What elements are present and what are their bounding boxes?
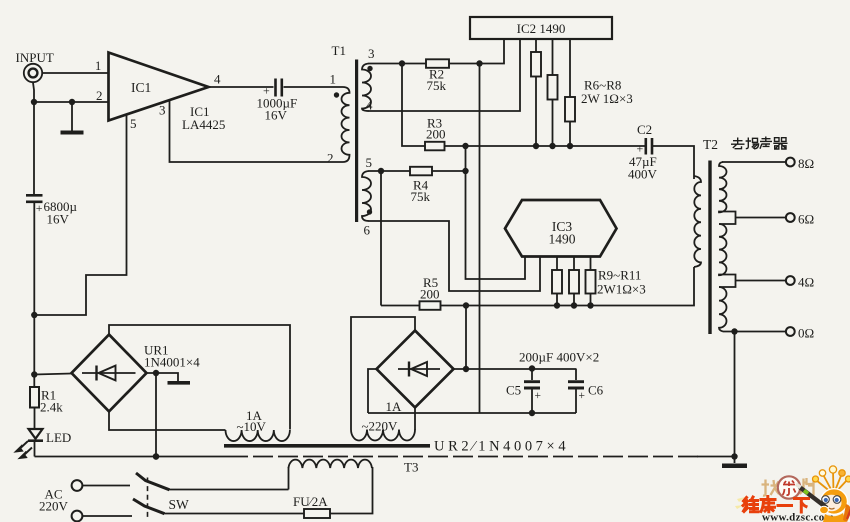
- wire: IC3 pin to R10: [573, 257, 575, 271]
- terminal 8 ohm: [786, 158, 795, 167]
- wire: T1 pin5 to R4: [369, 170, 411, 172]
- node: R9 bottom on bus: [554, 302, 560, 308]
- node: earth junction on bus: [731, 453, 737, 459]
- resistor R8 body: [565, 97, 575, 122]
- svg-text:1N4001×4: 1N4001×4: [144, 355, 200, 370]
- svg-text:75k: 75k: [427, 78, 447, 93]
- wire: T2 primary bottom to bus y305: [466, 267, 694, 306]
- wire: T1 pin4 to IC2 pin: [369, 39, 521, 111]
- node: pin5 joins left rail: [31, 312, 37, 318]
- svg-text:200µF 400V×2: 200µF 400V×2: [519, 350, 599, 365]
- terminal 0 ohm: [786, 327, 795, 336]
- node: C5 top: [529, 365, 535, 371]
- wire: R7 to bus y146: [552, 100, 554, 147]
- wire: R1 to LED: [34, 408, 36, 430]
- svg-text:C6: C6: [588, 383, 604, 398]
- node: T1 pin5 to R4 R5 branch: [378, 168, 384, 174]
- wire: jack sleeve to rail: [33, 83, 34, 103]
- resistor R2 body: [426, 59, 449, 68]
- svg-text:16V: 16V: [265, 108, 288, 123]
- wire: IC3 pin to R11: [590, 257, 592, 271]
- wire: C2 to T2 primary top: [653, 146, 694, 179]
- capacitor 1000uF plates: [276, 79, 282, 97]
- bridge rectifier UR2 diamond: [377, 331, 454, 408]
- wire: T1 pin3 to R2: [369, 63, 427, 65]
- fuse FU 2A body: [304, 509, 330, 518]
- bridge rectifier UR1 diamond: [72, 335, 147, 412]
- transformer T3 primary winding: [289, 460, 372, 468]
- svg-text:200: 200: [426, 127, 446, 142]
- wire: SW top pole to T3 primary left: [170, 489, 289, 491]
- input jack J1: [24, 64, 42, 82]
- wire: input jack pin1 to IC1: [43, 72, 109, 74]
- svg-text:R9~R11: R9~R11: [598, 268, 641, 283]
- wire: left rail to UR1 left vertex: [34, 374, 71, 375]
- wire: R3 to supply bus y146: [445, 145, 646, 147]
- terminal 6 ohm: [786, 213, 795, 222]
- transformer T3 core bar: [224, 444, 430, 448]
- wire: R10 to bus y305: [573, 294, 575, 306]
- wire: supply node down to IC3 pin a: [466, 146, 526, 279]
- wire: R5 left lead: [381, 305, 420, 307]
- wire: LED to bottom bus: [34, 442, 36, 457]
- svg-text:~220V: ~220V: [362, 419, 399, 434]
- resistor R5 body: [420, 301, 441, 310]
- wire: input ground rail to IC1 pin2: [34, 101, 109, 103]
- watermark pale streaks: [735, 497, 745, 509]
- terminal AC top: [72, 480, 83, 491]
- node: pin2 ground junction: [69, 99, 75, 105]
- node: T1 pin3 to R3 branch: [399, 60, 405, 66]
- UR1 internal diode: [82, 372, 136, 374]
- wire: IC1 pin2 ground stub: [71, 102, 73, 131]
- svg-text:LED: LED: [46, 430, 71, 445]
- svg-text:2.4k: 2.4k: [40, 400, 63, 415]
- svg-text:+: +: [535, 390, 542, 402]
- wire: 0ohm tap down to earth: [734, 332, 736, 464]
- terminal 4 ohm: [786, 276, 795, 285]
- transformer T1 primary winding (pins 1-2): [342, 87, 350, 162]
- resistor R9 body: [552, 270, 562, 294]
- node: UR1 positive output: [153, 370, 159, 376]
- svg-text:5: 5: [130, 116, 137, 131]
- node: UR2 positive junction: [463, 366, 469, 372]
- node: R2 output branch: [476, 60, 482, 66]
- polarity dot T1 pin1: [334, 92, 339, 97]
- svg-text:+: +: [36, 201, 43, 215]
- svg-text:FU∕2A: FU∕2A: [293, 494, 328, 509]
- wire: AC top terminal lead: [82, 485, 130, 487]
- svg-text:T2: T2: [703, 137, 718, 152]
- svg-text:T3: T3: [404, 460, 418, 475]
- watermark text zhao-xin-pian (tan): [762, 478, 814, 496]
- wire: left rail 6800u to R1: [33, 203, 35, 387]
- resistor R11 body: [586, 270, 596, 294]
- wire: IC2 pin to R6: [535, 39, 537, 52]
- LED D1 symbol: [29, 429, 43, 439]
- terminal AC bottom: [72, 511, 83, 522]
- watermark text weiku-yixia (red): [743, 497, 809, 513]
- wire: IC2 pin to R7: [552, 39, 554, 75]
- svg-text:1490: 1490: [549, 232, 576, 247]
- resistor R1 body: [30, 387, 39, 408]
- svg-text:SW: SW: [169, 497, 190, 512]
- wire: R9 to bus y305: [556, 294, 558, 306]
- node: R10 bottom on bus: [571, 302, 577, 308]
- wire: C6 top stub: [575, 369, 577, 381]
- svg-text:2W1Ω×3: 2W1Ω×3: [597, 282, 646, 297]
- transformer T2 secondary winding section 8-6 ohm: [719, 162, 736, 224]
- svg-text:220V: 220V: [39, 499, 69, 514]
- svg-text:INPUT: INPUT: [16, 50, 54, 65]
- wire: IC2 pin to R8: [569, 39, 571, 97]
- wire: SW bottom pole to fuse: [165, 513, 305, 515]
- resistor R10 body: [569, 270, 579, 294]
- node: R3 output on supply bus: [462, 143, 468, 149]
- wire: IC3 pin to R9: [556, 257, 558, 271]
- wire: bus y305 down to UR2 positive: [465, 306, 467, 370]
- switch SW top pole blade: [136, 473, 170, 490]
- wire: UR1 right vertex down to bottom bus: [155, 373, 157, 457]
- transformer T1 core: [355, 60, 358, 223]
- wire: T3 primary left lead: [288, 467, 290, 490]
- svg-text:6Ω: 6Ω: [798, 212, 814, 227]
- switch SW gang dashed link: [147, 478, 149, 518]
- capacitor 6800u plates: [26, 195, 43, 202]
- node: 0 ohm tap junction: [731, 328, 737, 334]
- wire: UR1 bottom vertex to 10V winding left: [109, 412, 226, 431]
- wire: IC1 pin4 output to 1000uF: [208, 86, 274, 88]
- transformer T1 secondary winding (pins 3-4): [362, 64, 371, 112]
- wire: UR2 left vertex to negative rail: [368, 369, 377, 413]
- svg-text:1: 1: [95, 59, 101, 73]
- wire: UR1 right vertex to chassis ground: [147, 373, 179, 382]
- IC2 1490 box: [470, 17, 612, 39]
- label: to loudspeaker (Chinese) drawn as strokes: [731, 137, 788, 150]
- wire: AC bottom terminal lead: [82, 515, 132, 517]
- svg-text:5: 5: [366, 155, 373, 170]
- wire: C6 bottom stub: [575, 390, 577, 414]
- svg-text:400V: 400V: [628, 167, 658, 182]
- ground: IC1 pin2 ground bar: [61, 131, 84, 135]
- svg-text:+: +: [579, 390, 586, 402]
- capacitor C6 plates: [568, 382, 584, 388]
- wire: R5 right lead: [441, 305, 467, 307]
- IC3 1490 hexagon: [505, 200, 617, 257]
- svg-text:2: 2: [327, 151, 334, 166]
- wire: R2 to IC2 pin: [449, 39, 504, 64]
- resistor R4 body: [410, 167, 432, 176]
- polarity dot T1 pin3: [367, 66, 372, 71]
- node: R8 bottom on bus: [567, 143, 573, 149]
- wire: UR1 top vertex to 10V winding right: [109, 325, 290, 430]
- resistor R6 body: [531, 52, 541, 77]
- svg-text:1: 1: [330, 72, 337, 87]
- node: UR1 output on bottom bus: [153, 453, 159, 459]
- watermark magnifier badge: [778, 476, 800, 498]
- wire: R11 to bus y305: [590, 294, 592, 306]
- node: R7 bottom on bus: [549, 143, 555, 149]
- watermark mascot: [796, 466, 850, 522]
- svg-text:T1: T1: [332, 43, 346, 58]
- svg-text:4: 4: [214, 72, 221, 87]
- wire: IC1 pin5 stepped path to left rail: [34, 114, 126, 315]
- wire: R4 right lead: [432, 170, 466, 172]
- node: R5 output on bus y305: [463, 302, 469, 308]
- wire: long vertical node3 to C5C6 negative rail: [479, 64, 481, 414]
- node: R6 bottom on bus: [533, 143, 539, 149]
- svg-text:200: 200: [420, 287, 440, 302]
- svg-text:UR2∕1N4007×4: UR2∕1N4007×4: [434, 439, 569, 455]
- svg-text:1A: 1A: [386, 399, 403, 414]
- svg-text:2: 2: [96, 88, 103, 103]
- node: SW common on bottom bus: [153, 453, 159, 459]
- svg-text:4: 4: [366, 98, 373, 113]
- svg-text:4Ω: 4Ω: [798, 275, 814, 290]
- svg-text:C2: C2: [637, 122, 652, 137]
- wire: T2 tap 8ohm: [722, 161, 786, 163]
- svg-text:6: 6: [364, 223, 371, 238]
- watermark logo dzsc.com: [735, 466, 850, 522]
- node: C5 bottom: [529, 410, 535, 416]
- svg-text:IC1: IC1: [131, 80, 151, 95]
- transformer T1 secondary winding (pins 5-6): [362, 171, 371, 221]
- wire: T1 pin6 stepped path to IC3 pin b: [369, 221, 541, 291]
- node: jack-rail junction: [31, 99, 37, 105]
- wire: IC1 pin3 to T1 winding bottom: [170, 101, 344, 163]
- polarity dot T1 pin6: [367, 209, 372, 214]
- transformer T2 core: [708, 161, 711, 335]
- svg-text:3: 3: [159, 103, 166, 118]
- wire: UR2 positive to C5 C6 tops: [454, 368, 577, 370]
- wire: left rail above 6800u: [33, 102, 35, 195]
- svg-text:0Ω: 0Ω: [798, 326, 814, 341]
- wire: T2 tap 0ohm: [723, 331, 786, 333]
- svg-text:~10V: ~10V: [237, 419, 267, 434]
- wire: bottom bus dashed section: [228, 456, 700, 458]
- node: UR1 left branch: [31, 371, 37, 377]
- svg-text:C5: C5: [506, 383, 521, 398]
- wire: R6 to bus y146: [535, 77, 537, 147]
- wire: T1 pin5 vertical to R5: [380, 171, 382, 306]
- switch SW bottom pole blade: [133, 499, 165, 514]
- wire: R8 to bus y146: [569, 122, 571, 147]
- node: R4 output: [462, 168, 468, 174]
- svg-text:2W 1Ω×3: 2W 1Ω×3: [581, 91, 633, 106]
- wire: C5 top stub: [531, 369, 533, 381]
- svg-text:LA4425: LA4425: [182, 117, 225, 132]
- ground: earth bar under T2: [722, 464, 747, 469]
- wire: UR2 bottom vertex to 220V winding right: [414, 408, 416, 431]
- LED emission arrows: [16, 441, 32, 458]
- node: R11 bottom on bus: [587, 302, 593, 308]
- transformer T3 secondary 220V winding: [351, 430, 415, 441]
- resistor R7 body: [548, 75, 558, 100]
- transformer T2 secondary winding section 4-0 ohm: [719, 287, 727, 332]
- wire: UR2 top vertex to 220V winding left: [351, 317, 415, 430]
- wire: node3 down to R3: [402, 64, 425, 147]
- wire: fuse to T3 primary right lead: [330, 467, 373, 514]
- capacitor C5 plates: [524, 382, 540, 388]
- svg-text:16V: 16V: [47, 212, 70, 227]
- wire: C5 bottom stub: [531, 390, 533, 414]
- svg-text:3: 3: [368, 46, 375, 61]
- transformer T3 secondary 10V winding: [226, 430, 290, 441]
- wire: C5 C6 negative rail: [368, 412, 576, 414]
- ground: UR1 chassis ground bar: [168, 381, 191, 385]
- svg-text:75k: 75k: [411, 189, 431, 204]
- capacitor C2 plates: [646, 138, 652, 155]
- transformer T2 secondary winding section 6-4 ohm: [719, 224, 736, 287]
- wire: 1000uF to T1 pin1: [284, 86, 344, 88]
- wire: T2 tap 4ohm: [736, 280, 786, 282]
- op-amp IC1 LA4425 triangle: [109, 53, 209, 121]
- svg-text:IC2 1490: IC2 1490: [517, 21, 566, 36]
- resistor R3 body: [425, 142, 445, 151]
- wire: bottom bus solid segment: [35, 456, 229, 458]
- transformer T2 primary winding: [694, 176, 701, 267]
- UR2 internal diode: [398, 368, 440, 370]
- svg-text:8Ω: 8Ω: [798, 156, 814, 171]
- wire: T2 tap 6ohm: [736, 217, 786, 219]
